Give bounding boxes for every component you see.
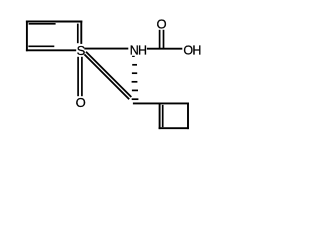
atom O carbonyl	[157, 16, 167, 31]
atom S	[77, 43, 86, 58]
atom O-H hydroxyl	[183, 43, 201, 57]
wire S=C diagonal double bond upper line	[86, 52, 131, 97]
atom O sulfoxide	[76, 95, 86, 110]
wire C-cyclobutene bond and square top edge	[133, 102, 189, 104]
wire ring right inner double-bond line C4=S	[77, 24, 79, 44]
wire S-N bond	[84, 48, 128, 50]
wire cyclobutene inner double-bond line	[162, 105, 164, 127]
wire cyclobutene right bond	[187, 103, 189, 130]
wire ring top bond C2-C3	[26, 21, 82, 23]
wire C=O double bond line right	[163, 30, 165, 49]
svg-text:O: O	[76, 95, 86, 110]
wire cyclobutene left bond	[159, 103, 161, 130]
wire cyclobutene bottom bond	[159, 127, 189, 129]
wire ring bottom bond C1-C6	[26, 49, 76, 51]
svg-text:O: O	[157, 16, 167, 31]
svg-text:OH: OH	[183, 43, 201, 57]
wire S=C diagonal double bond lower line	[84, 54, 129, 99]
wire ring right bond C4-S outer	[80, 21, 82, 44]
wire ring bottom inner double-bond line C1=C6	[28, 45, 54, 47]
wire ring top inner double-bond line C2=C3	[29, 23, 56, 25]
svg-text:S: S	[77, 43, 86, 58]
wire S=O double bond line left	[77, 57, 79, 96]
wire S=O double bond line right	[81, 57, 83, 96]
svg-text:NH: NH	[130, 44, 147, 58]
wire C=O double bond line left	[159, 30, 161, 49]
wire hashed wedge bond N-C stereo	[132, 56, 139, 99]
wire N-C(=O) and C-OH horizontal bond	[147, 48, 182, 50]
wire ring left bond C1-C2	[26, 21, 28, 52]
atom N-H	[130, 44, 147, 58]
